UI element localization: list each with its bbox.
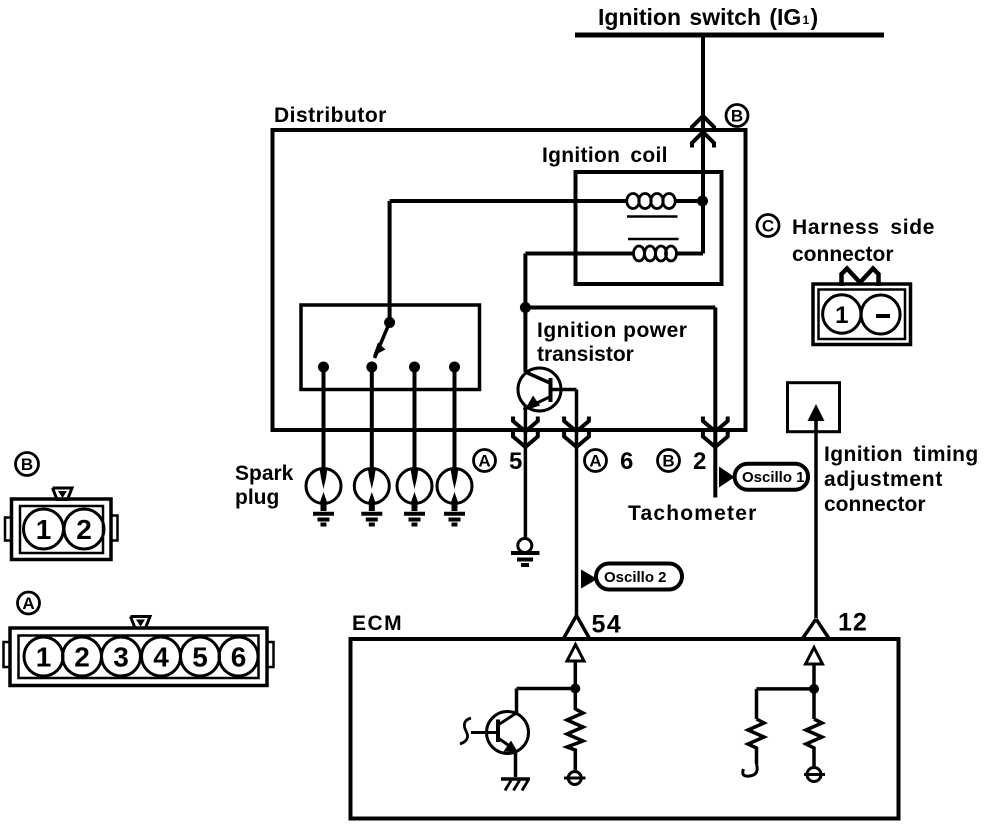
wire triangle down bbox=[812, 664, 816, 719]
rotor box (distributor contacts) bbox=[301, 305, 480, 390]
wire to left resistor branch bbox=[757, 689, 815, 719]
svg-text:B: B bbox=[731, 107, 743, 126]
oscillo 1 flag bbox=[719, 464, 808, 490]
svg-text:adjustment: adjustment bbox=[824, 468, 943, 491]
pin label A 6 bbox=[585, 448, 634, 475]
svg-text:Ignition coil: Ignition coil bbox=[542, 144, 668, 167]
node label A (left connector) bbox=[18, 592, 40, 614]
oscillo 2 flag bbox=[581, 564, 682, 590]
harness side connector C drawing bbox=[813, 269, 911, 345]
junction primary/secondary common node bbox=[697, 196, 708, 207]
svg-text:6: 6 bbox=[620, 448, 633, 475]
ignition coil box bbox=[576, 172, 722, 284]
svg-text:1: 1 bbox=[803, 13, 810, 27]
ECM resistor R3 (right branch) bbox=[806, 719, 822, 767]
spark plug 4 bbox=[437, 469, 472, 525]
svg-text:A: A bbox=[22, 594, 34, 613]
svg-text:A: A bbox=[589, 452, 601, 471]
rotor arm with junction bbox=[384, 317, 395, 328]
node label B (left connector) bbox=[16, 453, 39, 476]
svg-text:3: 3 bbox=[113, 642, 129, 673]
svg-text:5: 5 bbox=[192, 642, 208, 673]
svg-text:1: 1 bbox=[36, 642, 52, 673]
spark plug 2 bbox=[354, 469, 389, 525]
ignition power transistor Q1 bbox=[518, 308, 577, 412]
svg-text:C: C bbox=[762, 217, 774, 236]
svg-text:plug: plug bbox=[235, 486, 279, 509]
label Ignition switch (IG1) bbox=[598, 4, 818, 30]
ignition timing adjustment connector box bbox=[788, 383, 840, 618]
connector chevrons A5 bbox=[513, 417, 538, 432]
wire primary to node bbox=[675, 199, 703, 203]
svg-text:B: B bbox=[662, 452, 674, 471]
svg-text:Ignition timing: Ignition timing bbox=[824, 443, 979, 466]
connector chevrons A6 bbox=[564, 417, 589, 432]
pin label B 2 bbox=[658, 448, 707, 475]
coil secondary winding L2 bbox=[634, 246, 677, 261]
wire secondary right to common node bbox=[676, 252, 703, 256]
label Harness side connector bbox=[792, 216, 935, 266]
label Ignition timing adjustment connector bbox=[824, 443, 979, 516]
svg-text:Oscillo 2: Oscillo 2 bbox=[604, 569, 667, 586]
ECM resistor R2 (left branch) bbox=[748, 719, 764, 764]
label Spark plug bbox=[235, 462, 294, 509]
wire node to tachometer branch bbox=[525, 308, 715, 498]
ECM resistor R1 bbox=[567, 709, 583, 771]
wire emitter to ground (A5) bbox=[524, 406, 528, 539]
label Ignition power transistor bbox=[537, 319, 687, 366]
connector chevrons B2 bbox=[703, 417, 728, 432]
spark plug wires bbox=[324, 367, 455, 471]
wire primary coil to rotor bbox=[390, 201, 627, 321]
spark plug 1 bbox=[306, 469, 341, 525]
ECM box bbox=[351, 639, 899, 819]
svg-text:transistor: transistor bbox=[537, 343, 634, 366]
ground A5 (chassis) bbox=[511, 539, 540, 566]
terminal circle R3 bbox=[804, 768, 825, 782]
junction node transistor collector / tach bbox=[520, 302, 531, 313]
svg-text:A: A bbox=[478, 452, 490, 471]
connector B drawing (2-pin) bbox=[5, 488, 118, 560]
hook terminal under R2 bbox=[743, 764, 757, 776]
connector A drawing (6-pin) bbox=[4, 617, 274, 686]
svg-text:connector: connector bbox=[792, 243, 894, 266]
wire to transistor collector bbox=[517, 689, 576, 714]
svg-text:B: B bbox=[21, 455, 33, 474]
svg-text:6: 6 bbox=[231, 642, 247, 673]
svg-text:Ignition power: Ignition power bbox=[537, 319, 687, 342]
wire secondary left to transistor node bbox=[525, 254, 633, 308]
connector chevrons B (in-line connector on switch feed) bbox=[692, 116, 714, 132]
node label C (circled) bbox=[757, 215, 779, 237]
terminal circle R1 (internal ground) bbox=[564, 772, 586, 785]
ignition switch bus line bbox=[575, 33, 884, 38]
pin label A 5 bbox=[474, 448, 523, 475]
svg-text:2: 2 bbox=[74, 642, 90, 673]
svg-text:12: 12 bbox=[838, 609, 868, 637]
wire ignition switch to coil (node B feed) bbox=[701, 35, 705, 254]
ECM pin 54 fork bbox=[564, 616, 590, 639]
svg-text:Spark: Spark bbox=[235, 462, 294, 485]
coil primary winding L1 bbox=[627, 194, 675, 209]
svg-text:Ignition switch (IG: Ignition switch (IG bbox=[598, 4, 801, 30]
svg-text:Tachometer: Tachometer bbox=[628, 502, 757, 525]
svg-text:): ) bbox=[811, 4, 819, 30]
svg-text:ECM: ECM bbox=[352, 612, 403, 635]
svg-text:Oscillo 1: Oscillo 1 bbox=[742, 469, 805, 486]
svg-text:5: 5 bbox=[509, 448, 522, 475]
svg-text:54: 54 bbox=[592, 611, 623, 639]
wire triangle to resistor bbox=[574, 661, 578, 710]
coil core lines bbox=[627, 217, 679, 240]
node label B (circled) bbox=[726, 105, 748, 127]
spark plug 3 bbox=[397, 469, 432, 525]
ECM right: pull-up supply triangle bbox=[806, 648, 823, 665]
svg-text:1: 1 bbox=[835, 302, 848, 329]
ground Q2 emitter (chassis hatch) bbox=[501, 779, 530, 791]
ECM pin 12 fork bbox=[803, 619, 830, 639]
ECM left: pull-up supply triangle bbox=[567, 645, 584, 662]
svg-text:2: 2 bbox=[693, 448, 706, 475]
svg-text:2: 2 bbox=[76, 514, 92, 545]
svg-text:connector: connector bbox=[824, 493, 926, 516]
wire base to ECM 54 (A6) bbox=[575, 390, 579, 619]
svg-text:Distributor: Distributor bbox=[274, 104, 387, 127]
svg-text:Harness side: Harness side bbox=[792, 216, 935, 239]
rotor contact dots bbox=[318, 362, 329, 373]
svg-text:1: 1 bbox=[36, 514, 52, 545]
ECM transistor Q2 bbox=[460, 712, 529, 778]
svg-text:4: 4 bbox=[153, 642, 169, 673]
junction dot right bbox=[809, 684, 819, 694]
distributor box bbox=[273, 130, 746, 430]
junction dot left bbox=[570, 684, 580, 694]
